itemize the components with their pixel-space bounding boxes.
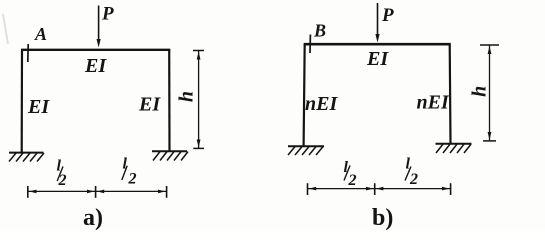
- label B: [313, 21, 326, 41]
- fixed support under left column (frame b): [288, 146, 324, 155]
- faint scan smudge top-left: [3, 14, 8, 44]
- frame b: right column: [449, 44, 452, 144]
- section tick at node B: [309, 35, 311, 54]
- label EI on beam (frame b): [366, 48, 389, 70]
- label P (frame b): [381, 5, 394, 26]
- svg-text:P: P: [381, 5, 394, 26]
- svg-text:2: 2: [58, 172, 67, 189]
- label h (frame a): [176, 91, 198, 102]
- svg-text:h: h: [176, 91, 198, 102]
- svg-text:nEI: nEI: [417, 92, 450, 114]
- svg-text:b): b): [372, 205, 393, 231]
- load P arrow (frame b): [375, 3, 379, 43]
- svg-text:P: P: [101, 4, 114, 25]
- svg-text:A: A: [34, 24, 47, 44]
- label l/2 right span (frame b): [405, 156, 418, 189]
- label nEI on right column (frame b): [417, 92, 450, 114]
- svg-text:EI: EI: [84, 55, 107, 77]
- dimension line l/2+l/2 (frame a): [28, 186, 167, 198]
- label A: [34, 24, 47, 44]
- dimension h (frame b): [480, 45, 499, 141]
- label EI on left column (frame a): [27, 96, 50, 118]
- label h (frame b): [469, 86, 491, 97]
- svg-text:EI: EI: [366, 48, 389, 70]
- svg-text:h: h: [469, 86, 491, 97]
- svg-text:EI: EI: [138, 94, 161, 116]
- frame a: right column: [168, 49, 171, 152]
- frame b: top beam EI: [304, 43, 451, 46]
- svg-text:EI: EI: [27, 96, 50, 118]
- section tick at node A: [27, 44, 29, 62]
- label nEI on left column (frame b): [305, 93, 338, 115]
- svg-text:2: 2: [128, 171, 137, 188]
- frame b: left column: [304, 44, 305, 146]
- label l/2 left span (frame b): [344, 159, 357, 189]
- label P (frame a): [101, 4, 114, 25]
- fixed support under right column (frame a): [152, 151, 188, 160]
- load P arrow (frame a): [97, 6, 101, 48]
- caption a): [83, 205, 103, 231]
- label l/2 left span (frame a): [57, 158, 67, 190]
- label EI on right column (frame a): [138, 94, 161, 116]
- label l/2 right span (frame a): [122, 156, 137, 188]
- frame a: top beam EI: [21, 49, 170, 51]
- dimension h (frame a): [193, 51, 204, 149]
- svg-text:2: 2: [409, 171, 418, 188]
- label EI on beam (frame a): [84, 55, 107, 77]
- svg-text:a): a): [83, 205, 103, 231]
- svg-text:nEI: nEI: [305, 93, 338, 115]
- fixed support under left column (frame a): [9, 153, 44, 162]
- svg-text:B: B: [313, 21, 326, 41]
- svg-text:2: 2: [348, 172, 357, 189]
- fixed support under right column (frame b): [436, 144, 472, 153]
- frame a: left column: [21, 49, 23, 153]
- dimension line l/2+l/2 (frame b): [308, 183, 451, 195]
- caption b): [372, 205, 393, 231]
